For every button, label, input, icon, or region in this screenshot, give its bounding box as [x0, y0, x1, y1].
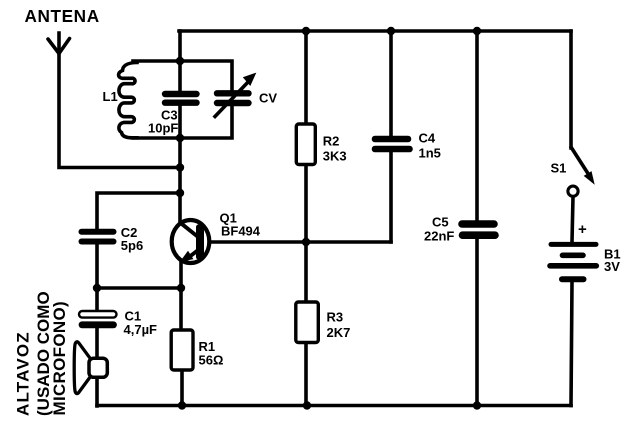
svg-text:3K3: 3K3 — [323, 149, 347, 164]
svg-text:R2: R2 — [323, 134, 340, 149]
svg-text:ALTAVOZ: ALTAVOZ — [13, 331, 32, 416]
svg-text:CV: CV — [259, 91, 277, 106]
svg-text:C5: C5 — [432, 215, 449, 230]
svg-text:+: + — [578, 221, 587, 238]
svg-text:R3: R3 — [327, 310, 344, 325]
svg-text:5p6: 5p6 — [121, 238, 143, 253]
svg-text:1n5: 1n5 — [419, 146, 441, 161]
svg-text:22nF: 22nF — [424, 229, 454, 244]
svg-text:C4: C4 — [419, 131, 436, 146]
svg-text:4,7µF: 4,7µF — [124, 322, 158, 337]
svg-text:2K7: 2K7 — [327, 325, 351, 340]
svg-text:S1: S1 — [551, 161, 567, 176]
svg-text:BF494: BF494 — [221, 224, 261, 239]
svg-text:MICROFONO): MICROFONO) — [50, 301, 69, 415]
svg-text:L1: L1 — [103, 89, 118, 104]
svg-text:10pF: 10pF — [148, 121, 178, 136]
svg-text:56Ω: 56Ω — [199, 353, 224, 368]
svg-text:ANTENA: ANTENA — [25, 6, 100, 26]
svg-text:3V: 3V — [604, 259, 620, 274]
